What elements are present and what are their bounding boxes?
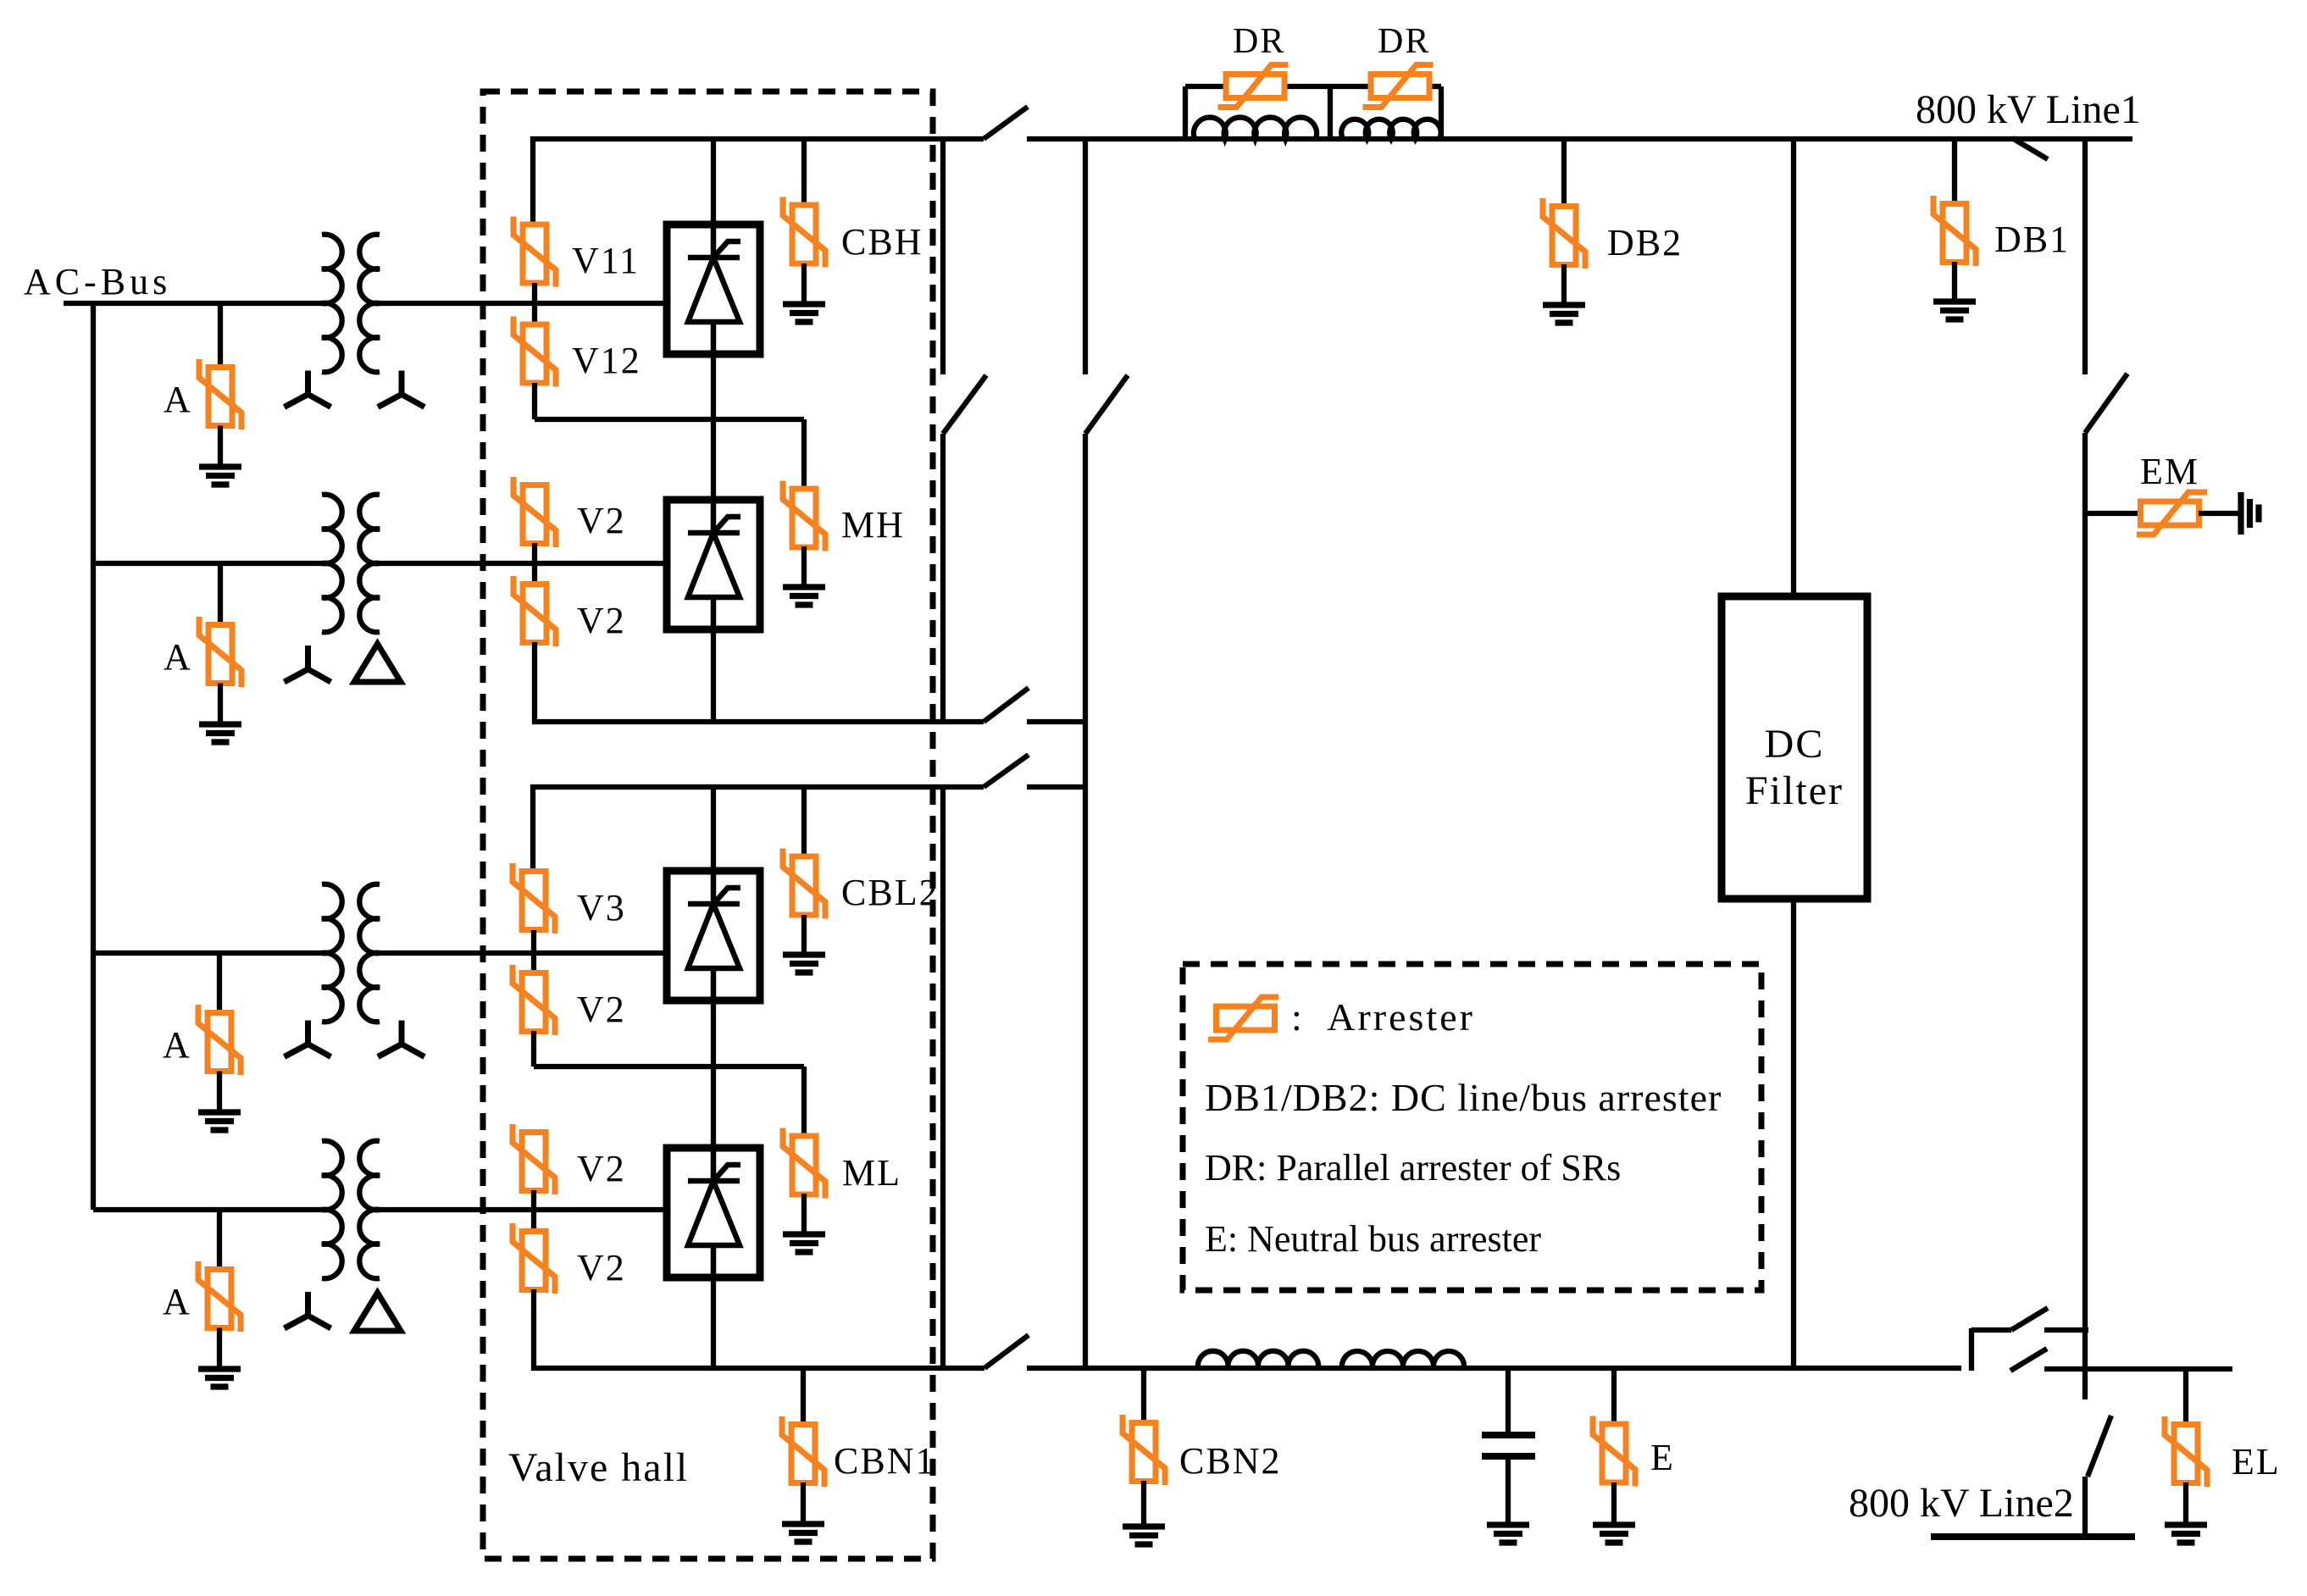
arrester EL bbox=[2165, 1416, 2207, 1487]
wire: lower mid junction bus bbox=[534, 1064, 804, 1069]
wire: line column middle bbox=[2082, 433, 2088, 1399]
wire: drop to arrester DB2 bbox=[1561, 139, 1567, 207]
svg-text:A: A bbox=[164, 636, 192, 678]
wire: T2 valve-side lead bbox=[374, 561, 667, 566]
ground (A3) bbox=[198, 1112, 241, 1130]
ground (A4) bbox=[198, 1369, 241, 1387]
ground (CBN1) bbox=[782, 1524, 824, 1542]
arrester MH bbox=[783, 481, 825, 551]
wire: drop to valve U1 bbox=[711, 139, 716, 224]
svg-text:V12: V12 bbox=[572, 340, 641, 381]
wire: CBL2 to ground bbox=[801, 915, 807, 955]
arrester V11 bbox=[513, 217, 556, 287]
wire: EM branch bbox=[2085, 511, 2141, 516]
wire: bypass level to line column bbox=[2044, 1327, 2088, 1333]
wire: valve U1 bottom to U2 top bbox=[711, 354, 716, 500]
wire: drop to valve U3 bbox=[711, 787, 716, 871]
svg-text:V2: V2 bbox=[577, 500, 626, 541]
svg-text:V2: V2 bbox=[577, 1247, 626, 1288]
wye symbol (T4 primary) bbox=[285, 1292, 331, 1328]
wire: neutral level to EL branch bbox=[2044, 1366, 2232, 1372]
wire: transformer T3 feed bbox=[93, 950, 331, 956]
svg-text:DR: DR bbox=[1233, 22, 1285, 61]
svg-text:DR: Parallel arrester of SRs: DR: Parallel arrester of SRs bbox=[1205, 1147, 1621, 1189]
legend box (dashed) bbox=[1183, 964, 1761, 1290]
wire: MH branch bbox=[801, 419, 807, 490]
arrester DB1 bbox=[1933, 196, 1976, 266]
thyristor valve U1 (6-pulse bridge) bbox=[667, 224, 760, 354]
arrester A2 bbox=[199, 617, 241, 687]
wire: drop to arrester A4 bbox=[217, 1210, 222, 1270]
delta symbol (T2 secondary) bbox=[354, 644, 401, 682]
wire: DR branch right stub bbox=[1439, 86, 1444, 139]
svg-text:ML: ML bbox=[842, 1152, 901, 1194]
wye symbol (T1 secondary) bbox=[378, 371, 424, 407]
wire: bypass level stub bbox=[1971, 1327, 2011, 1333]
smoothing reactor SR4 (neutral) bbox=[1342, 1351, 1464, 1368]
wire: DC pole bus left of switch bbox=[1027, 136, 2132, 141]
svg-text:AC-Bus: AC-Bus bbox=[24, 261, 171, 302]
wire: arrester A3 to ground bbox=[217, 1072, 222, 1113]
transformer T4 primary winding bbox=[322, 1141, 342, 1278]
wire: V11-V12 junction at T1 feed bbox=[532, 283, 537, 326]
wire: V2a-V2b junction at T2 feed bbox=[532, 543, 537, 585]
wire: valve U2 bottom drop bbox=[711, 629, 716, 722]
thyristor valve U3 (6-pulse bridge) bbox=[667, 871, 760, 1000]
transformer T2 primary winding bbox=[322, 495, 342, 633]
wire: V2c to lower mid junction bbox=[531, 1031, 536, 1067]
wire: drop to arrester A1 bbox=[218, 303, 223, 368]
transformer T3 secondary winding bbox=[359, 884, 380, 1022]
wire: E to ground bbox=[1611, 1482, 1617, 1525]
transformer T1 secondary winding bbox=[359, 235, 380, 372]
arrester V2 (lower group d) bbox=[513, 1124, 555, 1194]
wire: capacitor to ground bbox=[1506, 1460, 1511, 1525]
ground (EL) bbox=[2165, 1525, 2207, 1543]
arrester V3 bbox=[513, 863, 555, 934]
arrester A1 bbox=[199, 359, 241, 429]
ground (CBL2) bbox=[783, 955, 825, 973]
ground (DB1) bbox=[1933, 302, 1976, 319]
wire: arrester A1 to ground bbox=[218, 426, 223, 468]
arrester ML bbox=[783, 1128, 825, 1199]
svg-text:DR: DR bbox=[1378, 22, 1430, 61]
svg-text:V2: V2 bbox=[577, 1148, 626, 1189]
arrester A3 bbox=[198, 1005, 241, 1075]
svg-text:EL: EL bbox=[2232, 1441, 2281, 1482]
wire: pole link 2 lower bbox=[1083, 434, 1088, 1368]
wire: T3 valve-side lead bbox=[374, 950, 667, 956]
svg-text:800 kV Line1: 800 kV Line1 bbox=[1916, 87, 2141, 132]
svg-text:A: A bbox=[164, 379, 192, 420]
switch: lower group top disconnector blade bbox=[984, 755, 1029, 787]
svg-text:E: E bbox=[1650, 1437, 1675, 1478]
wire: transformer T4 feed bbox=[93, 1207, 331, 1212]
wire: drop to filter capacitor bbox=[1506, 1368, 1511, 1432]
wire: valve U4 bottom drop bbox=[711, 1277, 716, 1368]
ground (ML) bbox=[783, 1234, 825, 1252]
wire: EM to ground bbox=[2199, 511, 2241, 516]
wye symbol (T3 secondary) bbox=[378, 1021, 424, 1057]
wire: V2b to upper group bottom bus bbox=[535, 642, 984, 722]
wire: drop to arrester CBN1 bbox=[801, 1368, 806, 1425]
wye symbol (T3 primary) bbox=[285, 1021, 331, 1057]
wire: drop to arrester E bbox=[1611, 1368, 1617, 1425]
node: 800 kV Line2 bar bbox=[1931, 1533, 2135, 1540]
svg-text:: Arrester: : Arrester bbox=[1291, 995, 1475, 1039]
wire: DR branch left stub bbox=[1183, 86, 1188, 139]
switch: pole link 1 disconnector blade bbox=[943, 375, 986, 434]
wire: upper bottom bus right segment bbox=[1027, 719, 1085, 724]
thyristor valve U4 (6-pulse bridge) bbox=[667, 1148, 760, 1277]
svg-text:Valve hall: Valve hall bbox=[508, 1445, 689, 1490]
wire: arrester A2 to ground bbox=[218, 684, 223, 725]
wire: lower valve top bus bbox=[533, 787, 984, 873]
wye symbol (T2 primary) bbox=[285, 646, 331, 682]
wire: AC bus bbox=[64, 301, 331, 306]
svg-text:DB1: DB1 bbox=[1994, 219, 2070, 260]
legend arrester symbol bbox=[1208, 997, 1278, 1039]
wire: DB2 to ground bbox=[1561, 264, 1567, 305]
ground (DB2) bbox=[1543, 305, 1585, 323]
wire: DR branch middle stub bbox=[1328, 86, 1333, 139]
svg-text:V2: V2 bbox=[577, 600, 626, 641]
wire: neutral riser bbox=[1969, 1328, 1974, 1371]
svg-text:A: A bbox=[163, 1281, 191, 1322]
wire: pole link 1 lower bbox=[940, 434, 946, 722]
arrester CBL2 bbox=[783, 849, 825, 919]
wire: EL to ground bbox=[2183, 1482, 2188, 1525]
arrester DB2 bbox=[1543, 198, 1585, 269]
svg-text:MH: MH bbox=[841, 504, 905, 546]
wire: upper valve top bus bbox=[533, 139, 984, 225]
svg-text:CBL2: CBL2 bbox=[841, 872, 940, 913]
switch: neutral level disconnector blade bbox=[2010, 1349, 2047, 1371]
svg-text:Filter: Filter bbox=[1745, 768, 1844, 813]
wire: pole link 2 upper bbox=[1083, 139, 1088, 374]
ground (CBH) bbox=[783, 304, 825, 322]
wire: AC feeder vertical bbox=[91, 303, 96, 1210]
wire: transformer T2 feed bbox=[93, 561, 331, 566]
arrester CBH bbox=[783, 197, 825, 268]
wire: DC filter lower lead bbox=[1791, 899, 1796, 1368]
wire: V3-V2 junction at T3 feed bbox=[531, 930, 536, 974]
wye symbol (T1 primary) bbox=[285, 371, 331, 407]
svg-text:DB1/DB2: DC line/bus arrester: DB1/DB2: DC line/bus arrester bbox=[1205, 1076, 1722, 1119]
svg-text:V3: V3 bbox=[577, 887, 626, 928]
ground (MH) bbox=[783, 587, 825, 605]
wire: pole link 1 upper bbox=[940, 139, 946, 374]
valve hall boundary (dashed) bbox=[483, 91, 933, 1559]
wire: drop to arrester A2 bbox=[218, 563, 223, 625]
switch: DC pole bus disconnector blade bbox=[984, 107, 1028, 139]
switch: bypass disconnector blade bbox=[2011, 1308, 2048, 1330]
wire: DR branch conductor bbox=[1185, 84, 1441, 89]
ground (A1) bbox=[199, 467, 241, 485]
wire: MH to ground bbox=[801, 546, 807, 587]
wire: drop to arrester A3 bbox=[217, 953, 222, 1013]
svg-text:V11: V11 bbox=[572, 240, 640, 281]
delta symbol (T4 secondary) bbox=[354, 1293, 401, 1331]
svg-text:V2: V2 bbox=[577, 989, 626, 1030]
arrester A4 bbox=[198, 1261, 241, 1332]
ground (EM, rotated) bbox=[2241, 492, 2259, 535]
svg-text:CBN1: CBN1 bbox=[834, 1440, 935, 1482]
svg-text:DB2: DB2 bbox=[1607, 222, 1683, 263]
wire: arrester A4 to ground bbox=[217, 1328, 222, 1370]
arrester DR (left, parallel to SR1) bbox=[1218, 65, 1289, 108]
wire: lower top bus right segment bbox=[1027, 784, 1085, 790]
switch: line column lower disconnector blade bbox=[2088, 1416, 2111, 1477]
arrester CBN1 bbox=[782, 1416, 824, 1487]
capacitor C1 plate (top) bbox=[1482, 1432, 1535, 1438]
transformer T2 secondary winding bbox=[359, 495, 380, 633]
switch: pole link 2 disconnector blade bbox=[1085, 375, 1128, 434]
arrester V2 (lower group e) bbox=[513, 1223, 555, 1294]
wire: pole link 1 neutral section bbox=[940, 787, 946, 1368]
wire: CBN1 to ground bbox=[801, 1482, 806, 1524]
wire: valve U3 bottom to U4 top bbox=[711, 1000, 716, 1148]
wire: DC filter upper lead bbox=[1791, 139, 1796, 596]
svg-text:800 kV Line2: 800 kV Line2 bbox=[1849, 1481, 2074, 1526]
wire: drop to arrester CBH bbox=[801, 139, 807, 205]
wire: T1 valve-side lead bbox=[374, 301, 667, 306]
arrester V2 (upper group a) bbox=[513, 477, 556, 547]
wire: line column upper bbox=[2082, 139, 2088, 374]
arrester CBN2 bbox=[1123, 1415, 1165, 1485]
ground (E) bbox=[1593, 1525, 1635, 1543]
wire: drop to arrester CBN2 bbox=[1141, 1368, 1146, 1423]
svg-text:A: A bbox=[163, 1024, 191, 1066]
smoothing reactor SR2 bbox=[1341, 119, 1440, 139]
wire: ML branch bbox=[801, 1067, 807, 1137]
wire: drop to arrester EL bbox=[2183, 1369, 2188, 1425]
capacitor C1 plate (bottom) bbox=[1482, 1453, 1535, 1460]
wire: CBH to ground bbox=[801, 263, 807, 304]
svg-text:E: Neutral bus arrester: E: Neutral bus arrester bbox=[1205, 1218, 1541, 1260]
arrester EM bbox=[2137, 492, 2207, 535]
transformer T3 primary winding bbox=[322, 884, 342, 1022]
switch: line column upper disconnector blade bbox=[2085, 374, 2127, 433]
svg-text:CBN2: CBN2 bbox=[1179, 1440, 1281, 1482]
svg-text:DC: DC bbox=[1765, 722, 1825, 767]
wire: ML to ground bbox=[801, 1194, 807, 1234]
smoothing reactor SR3 (neutral) bbox=[1198, 1351, 1318, 1368]
ground (A2) bbox=[199, 724, 241, 742]
wire: neutral bus bbox=[1027, 1366, 1961, 1371]
transformer T4 secondary winding bbox=[359, 1141, 380, 1279]
wire: T4 valve-side lead bbox=[374, 1207, 667, 1212]
arrester E bbox=[1593, 1416, 1635, 1487]
wire: upper mid junction bus bbox=[535, 417, 804, 422]
svg-text:CBH: CBH bbox=[841, 221, 923, 263]
wire: line column to Line2 bar bbox=[2082, 1477, 2088, 1537]
wire: V2e to neutral bus corner bbox=[534, 1289, 984, 1368]
transformer T1 primary winding bbox=[322, 235, 342, 372]
wire: drop to arrester DB1 bbox=[1952, 139, 1957, 204]
smoothing reactor SR1 bbox=[1194, 118, 1317, 139]
arrester DR (right, parallel to SR2) bbox=[1363, 65, 1434, 108]
switch: upper group bottom disconnector blade bbox=[984, 688, 1029, 722]
DC filter box bbox=[1722, 596, 1867, 899]
wire: V12 to mid junction bbox=[532, 383, 537, 419]
thyristor valve U2 (6-pulse bridge) bbox=[667, 500, 760, 629]
svg-text:EM: EM bbox=[2140, 451, 2199, 492]
ground (CBN2) bbox=[1123, 1527, 1165, 1544]
switch: neutral bus disconnector blade bbox=[984, 1335, 1029, 1368]
wire: V2d-V2e junction at T4 feed bbox=[531, 1190, 536, 1233]
ground (capacitor) bbox=[1487, 1525, 1529, 1543]
arrester V12 bbox=[513, 317, 556, 387]
wire: CBN2 to ground bbox=[1141, 1481, 1146, 1527]
wire: drop to arrester CBL2 bbox=[801, 787, 807, 857]
arrester V2 (lower group c) bbox=[513, 965, 555, 1035]
wire: DB1 to ground bbox=[1952, 262, 1957, 302]
arrester V2 (upper group b) bbox=[513, 576, 556, 646]
switch: line-side blade on DC bus bbox=[2012, 138, 2048, 159]
